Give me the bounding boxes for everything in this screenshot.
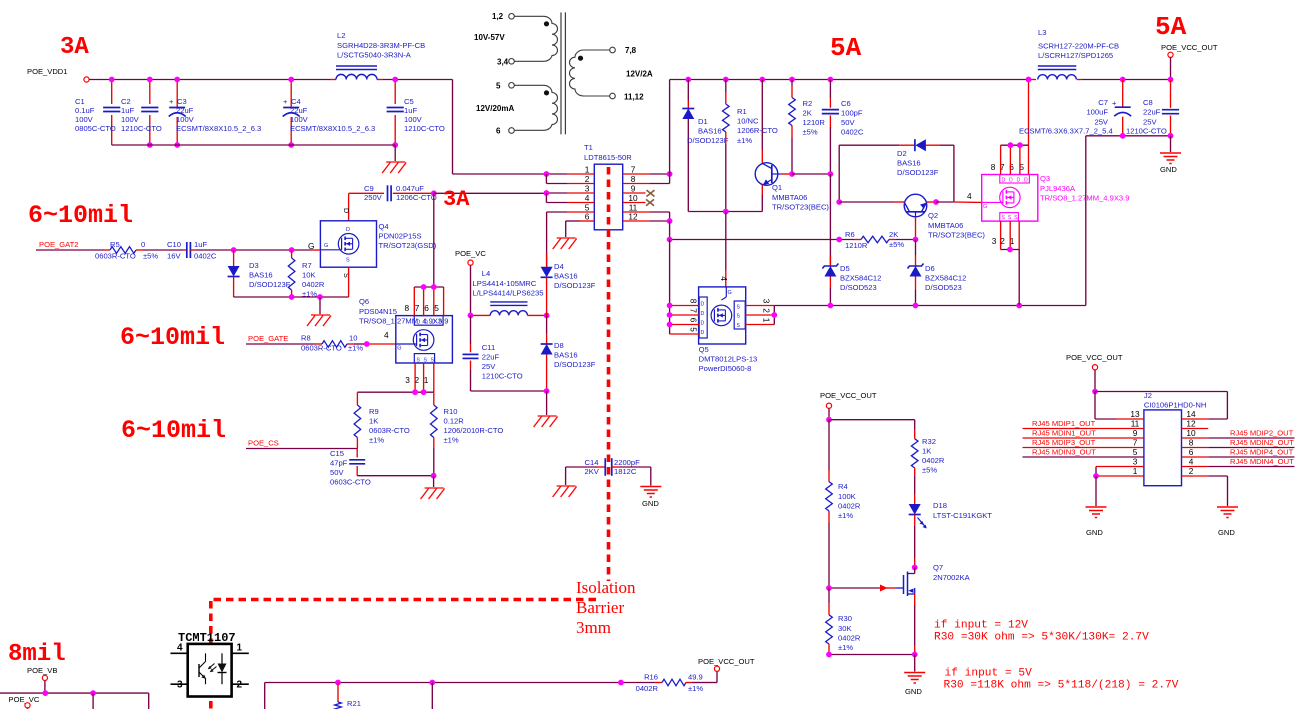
svg-text:D: D: [1017, 177, 1021, 183]
phase dot winding 1: [544, 21, 549, 26]
svg-text:D/SOD523: D/SOD523: [925, 283, 962, 292]
svg-text:100K: 100K: [838, 492, 856, 501]
svg-text:0402R: 0402R: [922, 456, 945, 465]
svg-text:L/SCRH127/SPD1265: L/SCRH127/SPD1265: [1038, 51, 1113, 60]
svg-text:J2: J2: [1144, 391, 1152, 400]
svg-text:2: 2: [1189, 466, 1194, 476]
svg-text:12V/2A: 12V/2A: [626, 70, 653, 79]
svg-text:±1%: ±1%: [444, 436, 459, 445]
svg-text:4: 4: [1189, 457, 1194, 467]
svg-text:50V: 50V: [841, 118, 855, 127]
svg-text:±1%: ±1%: [838, 511, 853, 520]
svg-text:LPS4414-105MRC: LPS4414-105MRC: [473, 279, 537, 288]
svg-text:2KV: 2KV: [585, 467, 600, 476]
inductor L3: [1038, 75, 1077, 80]
svg-text:D/SOD123F: D/SOD123F: [897, 168, 939, 177]
junction R6 right / Q2 base: [913, 237, 919, 243]
junction C2 bottom: [147, 142, 153, 148]
svg-text:R4: R4: [838, 482, 848, 491]
wire: T1 pin10 stub (no connect): [623, 202, 646, 204]
capacitor C14 (Y-cap): [566, 466, 597, 468]
svg-text:30K: 30K: [838, 624, 852, 633]
svg-text:D18: D18: [933, 501, 947, 510]
wire: T1 pin11: [623, 211, 650, 213]
svg-text:GND: GND: [1218, 528, 1235, 537]
svg-text:22uF: 22uF: [290, 106, 308, 115]
svg-text:BAS16: BAS16: [698, 127, 722, 136]
wire: LED block bottom: [829, 654, 915, 656]
wire: D3/R7/Q4-source bottom: [234, 296, 349, 298]
svg-text:0402C: 0402C: [194, 252, 217, 261]
svg-text:250V: 250V: [364, 193, 383, 202]
svg-text:3: 3: [762, 299, 772, 304]
junction J2 feed: [1092, 389, 1098, 395]
svg-text:2K: 2K: [889, 230, 898, 239]
wire: bottom secondary bus: [264, 683, 266, 710]
svg-text:100pF: 100pF: [841, 109, 863, 118]
svg-text:DMT8012LPS-13: DMT8012LPS-13: [699, 355, 758, 364]
svg-text:POE_VCC_OUT: POE_VCC_OUT: [1066, 353, 1123, 362]
resistor R10: [433, 392, 435, 405]
svg-text:2: 2: [585, 174, 590, 184]
svg-text:0.12R: 0.12R: [444, 417, 465, 426]
connector J2 body: [1144, 410, 1182, 486]
svg-text:1uF: 1uF: [121, 106, 134, 115]
svg-text:5A: 5A: [830, 33, 862, 63]
junction R4/R30/gate: [826, 585, 832, 591]
svg-text:RJ45 MDIN1_OUT: RJ45 MDIN1_OUT: [1032, 429, 1096, 438]
junction Q3 bus: [1026, 77, 1032, 83]
junction R8 right: [364, 341, 370, 347]
wire: Q7 gate: [829, 587, 888, 589]
svg-text:BAS16: BAS16: [249, 271, 273, 280]
svg-text:T1: T1: [584, 143, 593, 152]
wire: T1 pin9 stub (no connect): [623, 192, 646, 194]
resistor R1: [723, 77, 729, 83]
junction T1 pin12: [667, 218, 673, 224]
svg-text:3mm: 3mm: [576, 618, 611, 637]
svg-text:C1: C1: [75, 97, 85, 106]
wire: C7/C8 bottom tie: [1086, 135, 1171, 137]
svg-text:6: 6: [1189, 447, 1194, 457]
svg-text:10: 10: [628, 193, 638, 203]
svg-text:8mil: 8mil: [8, 641, 66, 668]
svg-text:C15: C15: [330, 449, 344, 458]
svg-text:1: 1: [762, 318, 772, 323]
wire: J2 pin3: [1096, 466, 1144, 468]
svg-text:G: G: [728, 290, 732, 296]
svg-text:RJ45 MDIN2_OUT: RJ45 MDIN2_OUT: [1230, 438, 1294, 447]
wire: D2 right vertical: [953, 145, 955, 202]
svg-text:D: D: [346, 227, 350, 233]
svg-text:CI0106P1HD0-NH: CI0106P1HD0-NH: [1144, 401, 1206, 410]
svg-text:50V: 50V: [330, 468, 344, 477]
svg-text:D8: D8: [554, 341, 564, 350]
wire: J2 pin13/14 feed: [1095, 391, 1227, 393]
capacitor C11: [470, 315, 472, 344]
wire: T1 pin2: [545, 174, 547, 184]
svg-text:1210C-CTO: 1210C-CTO: [404, 124, 445, 133]
junction bottom-left: [90, 690, 96, 696]
svg-text:D: D: [1024, 177, 1028, 183]
wire: Q5 gate vertical: [725, 212, 727, 271]
wire: Q6 drain stubs: [413, 287, 415, 316]
svg-text:0.1uF: 0.1uF: [75, 106, 95, 115]
svg-text:RJ45 MDIP1_OUT: RJ45 MDIP1_OUT: [1032, 419, 1096, 428]
svg-text:+: +: [283, 97, 288, 106]
svg-text:0402C: 0402C: [841, 128, 864, 137]
inductor L4: [471, 314, 491, 316]
svg-text:1K: 1K: [922, 447, 931, 456]
svg-text:5: 5: [1133, 447, 1138, 457]
svg-text:GND: GND: [1160, 165, 1177, 174]
wire: POE_GAT2 to R5: [36, 249, 103, 251]
junction Q3 source bus: [1016, 303, 1022, 309]
svg-text:BAS16: BAS16: [897, 159, 921, 168]
svg-text:if input = 12V: if input = 12V: [934, 620, 1028, 632]
wire: T1 pin6 to ground: [580, 220, 594, 222]
svg-text:C6: C6: [841, 99, 851, 108]
wire: to GND: [1170, 136, 1172, 152]
wire: output mid bus (source/zener): [774, 305, 1086, 307]
transformer T1 body: [594, 164, 622, 230]
svg-text:D: D: [701, 311, 705, 317]
svg-text:BZX584C12: BZX584C12: [840, 274, 881, 283]
diode D3 BAS16: [233, 250, 235, 266]
svg-text:1210R: 1210R: [803, 118, 826, 127]
svg-text:GND: GND: [905, 687, 922, 696]
svg-text:RJ45 MDIP3_OUT: RJ45 MDIP3_OUT: [1032, 438, 1096, 447]
svg-text:D5: D5: [840, 264, 850, 273]
svg-text:GND: GND: [1086, 528, 1103, 537]
transformer secondary winding 7,8-11,12: [610, 47, 616, 53]
svg-text:11: 11: [1131, 419, 1140, 429]
node POE_VCC_OUT terminal (LED): [826, 403, 831, 408]
svg-text:R2: R2: [803, 99, 813, 108]
svg-text:Q3: Q3: [1040, 174, 1050, 183]
svg-text:10/NC: 10/NC: [737, 117, 759, 126]
svg-text:S: S: [737, 314, 741, 320]
svg-text:1,2: 1,2: [492, 12, 504, 21]
junction Q6 source b: [421, 389, 427, 395]
svg-text:0402R: 0402R: [838, 502, 861, 511]
svg-text:PDS04N15: PDS04N15: [359, 307, 397, 316]
svg-text:6: 6: [585, 212, 590, 222]
node POE_VCC_OUT terminal (bottom): [714, 666, 719, 671]
svg-text:1uF: 1uF: [404, 106, 417, 115]
svg-text:POE_GAT2: POE_GAT2: [39, 240, 79, 249]
wire: Q3 drain stubs: [1000, 145, 1002, 174]
svg-text:47pF: 47pF: [330, 459, 348, 468]
ground (L4 block): [538, 415, 557, 417]
capacitor C8: [1170, 80, 1172, 108]
svg-text:C2: C2: [121, 97, 131, 106]
junction T1 pin3-4 tie: [544, 190, 550, 196]
svg-text:9: 9: [1133, 428, 1138, 438]
svg-text:C3: C3: [177, 97, 187, 106]
svg-text:R9: R9: [369, 407, 379, 416]
svg-text:±5%: ±5%: [889, 240, 904, 249]
junction C1 top: [109, 77, 115, 83]
svg-text:2N7002KA: 2N7002KA: [933, 573, 971, 582]
zener diode D5 BZX584C12: [829, 255, 831, 266]
svg-text:D: D: [432, 320, 436, 326]
svg-text:0805C-CTO: 0805C-CTO: [75, 124, 116, 133]
wire: C11/D8 bottom: [471, 390, 547, 392]
junction D3 top: [231, 247, 237, 253]
svg-text:25V: 25V: [1094, 118, 1108, 127]
capacitor C2: [149, 80, 151, 105]
node POE_VDD1 terminal: [84, 77, 89, 82]
svg-text:1210C-CTO: 1210C-CTO: [1126, 127, 1167, 136]
svg-text:Q6: Q6: [359, 297, 369, 306]
junction Q3 source tie: [1007, 247, 1013, 253]
svg-text:POE_CS: POE_CS: [248, 439, 279, 448]
junction Q5 pin8: [667, 303, 673, 309]
svg-text:POE_VB: POE_VB: [27, 666, 57, 675]
svg-text:2K: 2K: [803, 109, 812, 118]
svg-text:TR/SOT23(BEC): TR/SOT23(BEC): [772, 203, 829, 212]
diode D8 BAS16: [546, 315, 548, 333]
transformer core: [560, 12, 562, 134]
svg-text:S: S: [417, 358, 421, 364]
resistor R30: [828, 588, 830, 603]
junction R7 top: [289, 247, 295, 253]
resistor R8: [315, 343, 322, 345]
junction C9 right: [431, 190, 437, 196]
junction R1 bottom / Q5 gate: [723, 209, 729, 215]
svg-text:R5: R5: [110, 240, 120, 249]
capacitor C3 (polarized): [176, 80, 178, 108]
svg-text:1210R: 1210R: [845, 241, 868, 250]
svg-text:10: 10: [349, 334, 357, 343]
wire: C9 to T1 pins 3-4: [434, 192, 547, 194]
svg-text:R10: R10: [444, 407, 458, 416]
svg-text:TR/SOT23(GSD): TR/SOT23(GSD): [379, 241, 437, 250]
svg-text:1K: 1K: [369, 417, 378, 426]
svg-text:0402R: 0402R: [302, 280, 325, 289]
junction J2 ground left: [1093, 473, 1099, 479]
junction Q6 drain tie a: [421, 284, 427, 290]
junction L4 right: [544, 313, 550, 319]
svg-text:100uF: 100uF: [1086, 108, 1108, 117]
svg-text:C4: C4: [291, 97, 301, 106]
resistor R4: [828, 420, 830, 470]
svg-text:ECSMT/8X8X10.5_2_6.3: ECSMT/8X8X10.5_2_6.3: [290, 124, 375, 133]
svg-text:C11: C11: [482, 343, 495, 352]
wire: T1 pin12: [623, 220, 650, 222]
svg-text:100V: 100V: [290, 115, 309, 124]
wire: POE_VB bottom bus: [0, 692, 149, 694]
isolation barrier dashed line (vertical through optocoupler): [209, 601, 213, 709]
junction C4 top: [288, 77, 294, 83]
svg-text:Barrier: Barrier: [576, 598, 624, 617]
resistor R7: [291, 250, 293, 258]
resistor R2: [789, 77, 795, 83]
junction bus POE_VCC_OUT: [1168, 77, 1174, 83]
svg-text:3: 3: [405, 375, 410, 385]
svg-text:±5%: ±5%: [143, 252, 158, 261]
svg-text:100V: 100V: [75, 115, 94, 124]
svg-text:100V: 100V: [121, 115, 140, 124]
svg-text:RJ45 MDIP2_OUT: RJ45 MDIP2_OUT: [1230, 429, 1294, 438]
svg-text:SGRH4D28-3R3M-PF-CB: SGRH4D28-3R3M-PF-CB: [337, 41, 425, 50]
wire: Q3 source stubs: [1000, 221, 1002, 249]
svg-text:5: 5: [434, 303, 439, 313]
transistor Q2 MMBTA06: [904, 194, 927, 217]
svg-text:0603R-CTO: 0603R-CTO: [369, 426, 410, 435]
svg-text:LDT8615-50R: LDT8615-50R: [584, 153, 632, 162]
optocoupler TCMT1107 body: [188, 644, 232, 697]
svg-text:SCRH127-220M-PF-CB: SCRH127-220M-PF-CB: [1038, 42, 1119, 51]
svg-text:C9: C9: [364, 184, 374, 193]
svg-text:6: 6: [424, 303, 429, 313]
svg-text:POE_VCC_OUT: POE_VCC_OUT: [1161, 43, 1218, 52]
svg-text:7,8: 7,8: [625, 46, 637, 55]
svg-text:1: 1: [237, 643, 243, 654]
svg-text:8: 8: [404, 303, 409, 313]
svg-text:9: 9: [631, 184, 636, 194]
svg-text:8: 8: [1189, 438, 1194, 448]
ground (C14 primary): [557, 485, 576, 487]
svg-text:ECSMT/8X8X10.5_2_6.3: ECSMT/8X8X10.5_2_6.3: [176, 124, 261, 133]
svg-text:D6: D6: [925, 264, 935, 273]
svg-text:5: 5: [496, 82, 501, 91]
svg-text:7: 7: [1133, 438, 1138, 448]
ground GND (C14 secondary): [640, 486, 661, 488]
svg-text:3: 3: [992, 236, 997, 246]
node POE_VC terminal: [468, 260, 473, 265]
wire: R8 to Q6 gate pin 4: [354, 343, 367, 345]
svg-text:G: G: [324, 243, 328, 249]
svg-text:PDN02P15S: PDN02P15S: [379, 232, 422, 241]
svg-text:13: 13: [1130, 409, 1140, 419]
junction R7 bottom: [289, 294, 295, 300]
svg-text:1206R-CTO: 1206R-CTO: [737, 126, 778, 135]
wire: T1 pin8: [623, 183, 650, 185]
svg-text:PowerDI5060-8: PowerDI5060-8: [699, 364, 752, 373]
svg-text:L/SCTG5040-3R3N-A: L/SCTG5040-3R3N-A: [337, 51, 412, 60]
svg-text:±1%: ±1%: [838, 643, 853, 652]
ground GND (LED block): [904, 672, 925, 674]
junction Q5 pin7: [667, 312, 673, 318]
svg-text:D/SOD123F: D/SOD123F: [687, 136, 729, 145]
junction Q6 drain tie b: [431, 284, 437, 290]
svg-text:25V: 25V: [1143, 118, 1157, 127]
svg-text:6: 6: [689, 318, 699, 323]
svg-text:S: S: [424, 358, 428, 364]
svg-text:R21: R21: [347, 699, 361, 708]
junction Q5 pin6: [667, 322, 673, 328]
junction POE_VB: [42, 690, 48, 696]
svg-text:D: D: [439, 320, 443, 326]
capacitor C7 (polarized): [1122, 80, 1124, 107]
wire: C9 down to Q6 drain tie: [433, 193, 435, 287]
junction Q2 emitter: [933, 199, 939, 205]
svg-text:C7: C7: [1098, 98, 1108, 107]
svg-text:1uF: 1uF: [194, 240, 207, 249]
ground (current sense): [425, 487, 444, 489]
svg-text:±1%: ±1%: [688, 684, 703, 693]
junction D2 left / Q2 collector: [836, 199, 842, 205]
junction bottom left: [826, 652, 832, 658]
svg-text:S: S: [1008, 215, 1012, 221]
no-connect X pin9: [647, 190, 655, 196]
svg-text:Q7: Q7: [933, 563, 943, 572]
svg-text:11,12: 11,12: [624, 93, 644, 102]
svg-text:D1: D1: [698, 117, 708, 126]
transistor Q3 PJL9436A: [982, 175, 1038, 222]
ground GND (output): [1160, 152, 1181, 154]
wire: D1/R1/Q1 emitter bottom: [688, 211, 762, 213]
transistor Q5 DMT8012LPS-13: [699, 287, 746, 344]
svg-text:GND: GND: [642, 499, 659, 508]
svg-text:R1: R1: [737, 107, 747, 116]
transistor Q7 2N7002KA: [912, 565, 918, 571]
node POE_VCC_OUT terminal (J2): [1092, 365, 1097, 370]
junction L4 left: [468, 313, 474, 319]
transistor Q6 PDS04N15: [396, 316, 453, 363]
svg-text:D: D: [342, 208, 351, 213]
diode D1 BAS16: [685, 77, 691, 83]
junction C8 bottom: [1168, 133, 1174, 139]
wire: J2 pin12 stub: [1182, 428, 1209, 430]
svg-text:D/SOD123F: D/SOD123F: [249, 280, 291, 289]
svg-text:7: 7: [689, 308, 699, 313]
svg-text:4: 4: [585, 193, 590, 203]
svg-text:±5%: ±5%: [803, 128, 818, 137]
svg-text:R32: R32: [922, 437, 936, 446]
svg-text:3: 3: [1133, 457, 1138, 467]
capacitor C4 (polarized): [290, 80, 292, 108]
svg-text:4: 4: [177, 643, 183, 654]
svg-text:±1%: ±1%: [369, 436, 384, 445]
svg-text:3A: 3A: [443, 187, 470, 212]
svg-text:Q2: Q2: [928, 211, 938, 220]
wire: C9 left down to Q4 drain: [348, 193, 350, 221]
svg-text:RJ45 MDIN3_OUT: RJ45 MDIN3_OUT: [1032, 448, 1096, 457]
svg-text:L3: L3: [1038, 28, 1046, 37]
svg-text:0: 0: [141, 240, 145, 249]
svg-text:8: 8: [631, 174, 636, 184]
junction bottom right: [618, 680, 624, 686]
wire: C15/R10 bottom: [357, 475, 433, 477]
svg-text:BZX584C12: BZX584C12: [925, 274, 966, 283]
isolation barrier dashed line (vertical through T1): [607, 167, 611, 581]
svg-text:7: 7: [415, 303, 420, 313]
capacitor C6: [828, 77, 834, 83]
svg-text:1206C-CTO: 1206C-CTO: [396, 193, 437, 202]
wire: R5 to C10: [143, 249, 183, 251]
wire: T1 pin7: [623, 173, 650, 175]
svg-text:4: 4: [384, 330, 389, 340]
wire: J2 pin13: [1095, 418, 1116, 420]
TCMT1107 pin stubs: [171, 652, 188, 654]
ground GND (J2 right): [1217, 506, 1238, 508]
capacitor C1: [111, 80, 113, 105]
phase dot secondary: [578, 56, 583, 61]
wire: T1 pin1: [567, 173, 594, 175]
svg-text:2200pF: 2200pF: [614, 458, 640, 467]
svg-text:S: S: [346, 258, 350, 264]
svg-text:D: D: [424, 320, 428, 326]
junction R2 bottom / Q1 base: [789, 171, 795, 177]
junction Q3 drain tie b: [1017, 142, 1023, 148]
junction LED feed: [826, 417, 832, 423]
svg-text:10K: 10K: [302, 271, 316, 280]
svg-text:0.047uF: 0.047uF: [396, 184, 424, 193]
svg-text:D: D: [1009, 177, 1013, 183]
